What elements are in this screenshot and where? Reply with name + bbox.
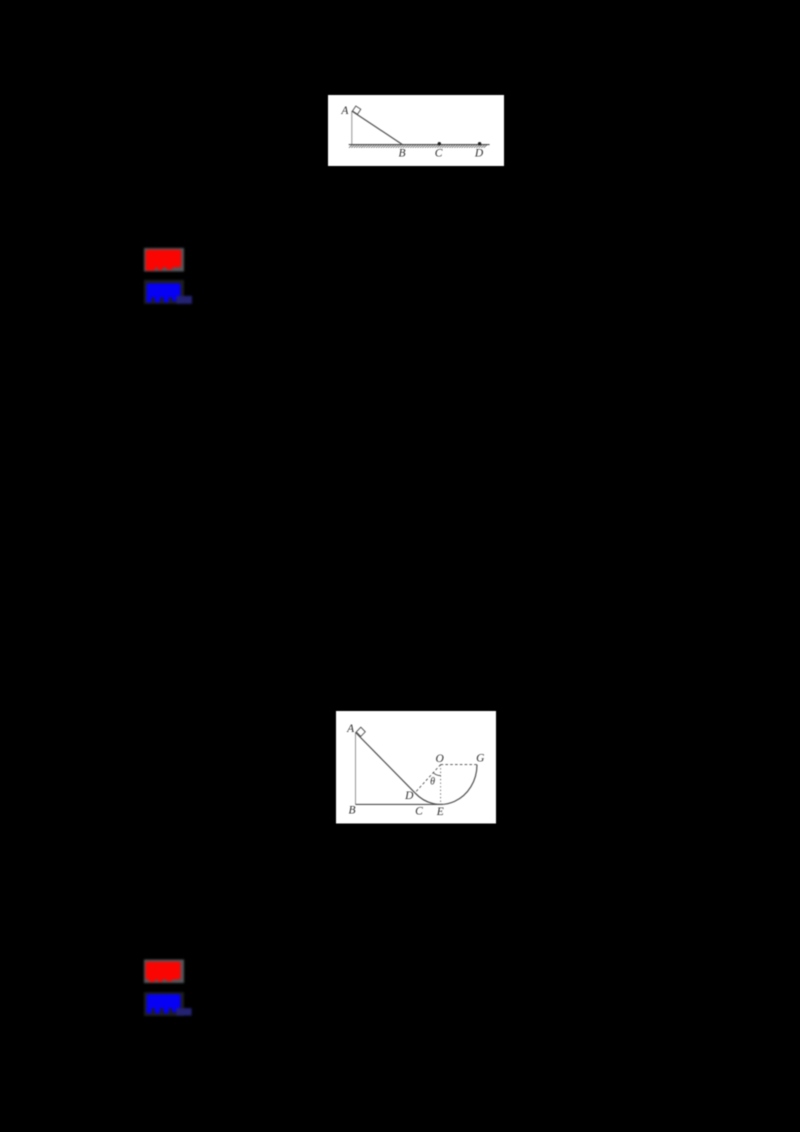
arc D-E-G bbox=[415, 765, 477, 805]
svg-text:A: A bbox=[346, 723, 355, 735]
svg-text:C: C bbox=[415, 806, 423, 818]
figure 2 panel (incline A-D with circular arc D-E-G, centre O) bbox=[336, 711, 496, 824]
dark navy tab bbox=[176, 1008, 191, 1016]
block at A bbox=[353, 106, 361, 114]
dark navy tab bbox=[177, 296, 193, 304]
analysis badge 2 (blue) bbox=[140, 988, 196, 1020]
node D dot bbox=[478, 142, 481, 145]
vertical wall AB bbox=[355, 732, 357, 804]
svg-text:B: B bbox=[348, 804, 355, 816]
dashed line O-G bbox=[441, 764, 477, 766]
svg-text:D: D bbox=[474, 148, 484, 160]
angle theta arc at O bbox=[433, 773, 440, 776]
svg-text:A: A bbox=[340, 105, 349, 117]
ground line bbox=[349, 144, 490, 146]
svg-text:O: O bbox=[435, 753, 444, 765]
white panel background bbox=[328, 95, 504, 166]
ground line B to E bbox=[356, 803, 443, 805]
answer badge 1 (red on gray) bbox=[140, 244, 196, 276]
svg-text:G: G bbox=[476, 753, 485, 765]
dotted vertical O-E bbox=[440, 765, 442, 804]
incline A to D bbox=[356, 732, 415, 792]
svg-text:B: B bbox=[398, 148, 405, 160]
node C dot bbox=[438, 142, 441, 145]
svg-text:E: E bbox=[436, 806, 444, 818]
block at A (diamond) bbox=[356, 727, 365, 736]
incline A to B bbox=[352, 111, 403, 145]
dashed radius O-D bbox=[415, 765, 441, 793]
figure 1 panel (incline with block A, ground B C D) bbox=[328, 95, 504, 166]
ground hatching bbox=[349, 145, 487, 148]
svg-text:D: D bbox=[404, 790, 414, 802]
answer badge 2 (red on gray) bbox=[140, 955, 196, 987]
svg-text:C: C bbox=[435, 148, 443, 160]
analysis badge 1 (blue) bbox=[140, 276, 196, 308]
svg-text:θ: θ bbox=[430, 777, 435, 788]
vertical wall AB bbox=[351, 111, 353, 144]
